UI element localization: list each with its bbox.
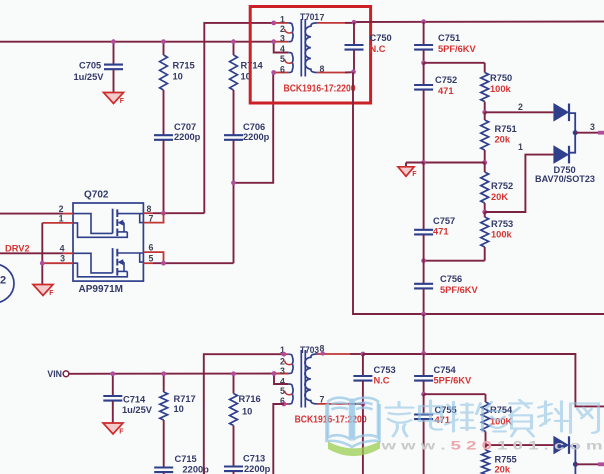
diode D750 lower [553,145,569,164]
svg-text:R754: R754 [490,405,513,415]
wire T703 pin8 out [317,353,363,355]
svg-text:1: 1 [59,213,64,223]
svg-text:7: 7 [320,394,325,404]
svg-text:R715: R715 [173,61,195,71]
resistor R714 [230,42,264,135]
node T701 sec bottom [351,69,356,74]
svg-text:C753: C753 [374,365,396,375]
wire Q702 pin2 [0,213,73,215]
wire Q702 pin1 [42,222,73,224]
wire secondary return [353,72,604,314]
svg-text:100k: 100k [491,230,513,240]
svg-text:5PF/6KV: 5PF/6KV [434,375,473,385]
svg-text:20k: 20k [495,465,511,474]
svg-text:100k: 100k [490,84,512,94]
capacitor C754 [414,353,472,394]
capacitor C753 [353,354,395,404]
svg-text:4: 4 [280,376,285,386]
node T703 pin8 corner [321,351,325,355]
wire pin7 down [362,404,364,474]
svg-text:10: 10 [174,404,184,414]
transistor Q702 lower mosfet [73,248,143,277]
svg-text:R753: R753 [491,219,513,229]
wire T703 pin6 down [273,404,284,474]
ground F (Q702) [33,285,54,298]
wire ground link [424,162,485,164]
transformer T701 label [300,12,319,22]
svg-text:C714: C714 [123,395,146,405]
wire Q702 pin5 [143,262,233,264]
capacitor C751 [414,22,476,63]
wire T703 pin7 out [317,403,363,405]
svg-text:N.C: N.C [370,44,386,54]
wire stage2 top rail [363,354,604,406]
svg-text:7: 7 [320,12,325,22]
resistor R755 [482,445,517,474]
capacitor C706 [224,122,270,263]
wire D751 cathode [569,446,575,474]
ground F (divider) [398,163,424,178]
node C754 bottom [421,392,426,397]
capacitor C756 [414,261,478,314]
svg-text:T701: T701 [300,12,319,22]
wire to R750 [424,63,485,73]
svg-text:6: 6 [280,65,285,75]
wire D750 cathodes [569,113,575,153]
wire gate bias to ground [41,223,43,285]
transistor Q702 label [84,189,109,200]
transformer T701 core [301,19,305,77]
svg-text:1: 1 [518,142,523,152]
svg-text:2200p: 2200p [174,132,201,142]
node C753 top [361,352,366,357]
transistor Q702 box [73,203,143,281]
capacitor C757 [414,163,455,261]
red highlight box [250,7,370,104]
svg-text:C750: C750 [370,33,392,43]
node T703 pin6 [282,402,287,407]
T701 pin numbers [280,12,325,74]
svg-text:Q702: Q702 [84,189,109,200]
svg-text:C752: C752 [435,75,457,85]
svg-text:2: 2 [59,204,64,214]
svg-text:1u/25V: 1u/25V [74,72,105,82]
node R752 bottom [482,210,487,215]
svg-text:2200p: 2200p [183,465,210,474]
resistor R752 [481,163,513,213]
svg-text:3: 3 [590,122,595,132]
wire output stage2 [575,462,604,466]
svg-text:AP9971M: AP9971M [79,284,123,295]
svg-text:5PF/6KV: 5PF/6KV [440,285,479,295]
wire R753 return [424,260,485,262]
wire T701 pin8 out [317,71,353,73]
terminal VIN [63,371,69,377]
svg-text:BAV70/SOT23: BAV70/SOT23 [535,174,595,184]
wire top secondary rail [354,21,604,24]
node return rail [421,312,426,317]
svg-text:4: 4 [280,44,285,54]
transformer T703 pin2 tap [285,361,293,365]
wire Q702 pin8 [143,212,204,214]
svg-text:1u/25V: 1u/25V [122,405,153,415]
svg-text:C706: C706 [243,122,265,132]
transformer T703 pin3-pin4 jog [274,374,293,405]
transformer T703 pin6 stub [284,403,288,405]
label VIN [47,369,62,379]
T701 value label [284,83,356,94]
wire to R754 [424,394,486,402]
svg-text:5PF/6KV: 5PF/6KV [438,44,477,54]
wire output 3 [575,122,604,134]
ground F (C714) [103,423,124,436]
node C751 top [421,19,426,24]
node pin5 junction [161,261,166,266]
node R714 junction [231,39,236,44]
node C757 bottom [421,258,426,263]
wire Q702 pin6 [143,252,163,263]
capacitor C750 [345,22,392,71]
svg-text:2: 2 [280,24,285,34]
svg-text:2200p: 2200p [243,132,270,142]
svg-text:C751: C751 [438,33,460,43]
svg-text:10: 10 [173,72,183,82]
resistor R716 [230,374,261,466]
node C754 top [421,351,426,356]
node R750 bottom [482,110,487,115]
svg-text:C715: C715 [175,454,197,464]
node R754 bottom [483,443,488,448]
node R751 bottom [482,160,487,165]
svg-text:4: 4 [60,244,65,254]
node T701 pin3 [271,39,276,44]
wire node1 to D750 [485,142,554,212]
svg-text:R714: R714 [241,61,264,71]
wire C706 to T701 pin6 [234,73,274,183]
svg-text:C756: C756 [440,274,462,284]
svg-text:471: 471 [433,227,449,237]
node C706 branch [231,180,236,185]
transformer T703 pin5 tap [285,391,293,395]
resistor R750 [481,73,512,113]
node C753 bottom [361,402,366,407]
svg-text:R717: R717 [174,394,196,404]
node C752 bottom [421,160,426,165]
watermark logo and text [327,398,603,456]
transformer T701 pin6 stub [274,72,289,74]
svg-text:10: 10 [242,407,252,417]
svg-text:C705: C705 [79,60,101,70]
svg-text:5: 5 [149,253,154,263]
node D751 common [573,462,578,467]
resistor R753 [481,212,513,261]
svg-text:3: 3 [280,34,285,44]
svg-text:R751: R751 [495,124,517,134]
svg-text:F: F [120,98,125,105]
node C751 bottom [421,60,426,65]
capacitor C715 [154,454,209,474]
svg-text:3: 3 [280,366,285,376]
wire node2 to D750 [485,102,554,112]
wire top rail [0,41,274,43]
resistor R715 [160,42,195,135]
svg-text:20k: 20k [495,135,511,145]
wire DRV2 to pin4 [0,252,73,254]
svg-text:DRV2: DRV2 [5,244,30,254]
svg-text:3: 3 [60,253,65,263]
transformer T701 pin5 tap [285,59,293,63]
svg-text:F: F [49,290,54,297]
svg-text:F: F [119,429,124,436]
svg-text:471: 471 [438,86,454,96]
capacitor C714 [103,374,152,423]
node T701 sec top [352,20,357,25]
svg-text:R716: R716 [239,394,261,404]
svg-text:C707: C707 [174,122,196,132]
label D750 [535,165,595,184]
svg-text:5: 5 [280,386,285,396]
capacitor C755 [414,394,457,474]
svg-text:R755: R755 [495,454,517,464]
node C714 [110,371,115,376]
node D750 common [573,130,578,135]
T703 value label [295,414,367,425]
node T701 pin6 [271,70,276,75]
transformer T701 pin3-pin4 jog [274,42,293,73]
svg-text:2200p: 2200p [244,464,271,474]
resistor R754 [482,402,513,445]
node R715 junction [161,39,166,44]
svg-text:5: 5 [280,54,285,64]
ground F (C705) [104,93,125,106]
wire node to D751 [486,444,554,446]
transformer T701 primary winding A [274,23,293,42]
wire T703 pin1 down-left [204,354,284,474]
capacitor C705 [74,42,124,93]
svg-text:VIN: VIN [47,369,62,379]
connector circle 2 [0,264,14,303]
resistor R751 [481,112,517,162]
transformer T703 core [301,350,305,408]
wire Q702 pin3 [42,262,73,264]
svg-text:BCK1916-17:2200: BCK1916-17:2200 [284,83,356,94]
svg-text:F: F [412,171,417,178]
transformer T703 primary winding A [274,354,293,373]
node pin3 junction [40,261,45,266]
node T701 pin1 [271,21,276,26]
node pin8 junction [161,211,166,216]
wire Q702 pin7 [143,213,163,222]
transistor Q702 part number [79,284,123,295]
label DRV2 [5,244,30,254]
diode D751 [553,436,569,455]
Q702 pin numbers [59,204,154,264]
node C705 junction [111,39,116,44]
transformer T703 label [300,345,319,355]
svg-text:C754: C754 [434,365,457,375]
capacitor C707 [154,122,201,213]
node T703 pin3 [272,371,277,376]
node R716 [231,371,236,376]
transformer T701 secondary winding [305,23,317,73]
wire T701 pin7 out [317,22,354,24]
node T703 pin1 [282,352,287,357]
svg-text:R750: R750 [490,73,512,83]
transistor Q702 upper mosfet [73,209,143,238]
svg-text:2: 2 [0,274,6,286]
transformer T703 secondary winding [305,354,317,404]
capacitor C713 [224,454,271,474]
capacitor C752 [414,63,457,163]
svg-text:C757: C757 [433,216,455,226]
svg-text:2: 2 [518,102,523,112]
T703 pin numbers [280,343,325,406]
svg-text:20K: 20K [491,192,508,202]
resistor R717 [160,374,196,467]
node R717 [161,371,166,376]
wire VIN rail [69,373,288,375]
wire rail to stage2 [423,314,425,353]
transformer T701 pin2 tap [285,29,293,33]
svg-text:R752: R752 [491,181,513,191]
svg-text:w w w . 5 2 0 1 0 1 . c o m: w w w . 5 2 0 1 0 1 . c o m [380,438,603,452]
svg-text:N.C: N.C [374,375,390,385]
svg-text:BCK1916-17:2200: BCK1916-17:2200 [295,414,367,425]
svg-text:2: 2 [280,357,285,367]
diode D750 upper [553,103,569,122]
wire T701 pin1 to Q702 drain [204,23,273,213]
svg-text:6: 6 [149,242,154,252]
svg-text:C713: C713 [243,454,265,464]
